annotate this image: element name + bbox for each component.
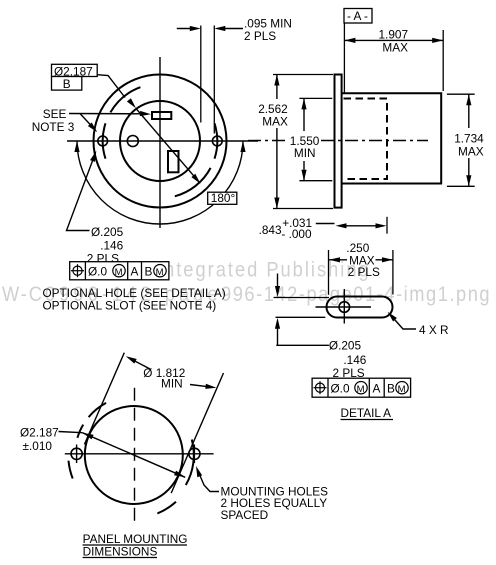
1.907 right extension line bbox=[442, 30, 444, 91]
.250 left extension line bbox=[328, 250, 330, 295]
svg-text:- .000: - .000 bbox=[281, 227, 312, 241]
watermark line 1 'Integrated Publishing' bbox=[157, 258, 369, 282]
detail A hole circle bbox=[339, 302, 350, 313]
watermark line 2 filename part 3 bbox=[221, 283, 490, 307]
see note 3 keyway arrowhead bbox=[140, 111, 151, 116]
svg-text:B: B bbox=[63, 77, 71, 91]
1.907 dimension line bbox=[344, 39, 443, 41]
left mounting hole bbox=[98, 136, 108, 146]
DIMENSIONS underline bbox=[83, 557, 157, 559]
svg-text:MAX: MAX bbox=[458, 145, 484, 159]
bolt circle diagonal dimension line bbox=[136, 109, 198, 181]
svg-text:4 X R: 4 X R bbox=[419, 323, 449, 337]
svg-text:2 PLS: 2 PLS bbox=[348, 265, 380, 279]
panel left hole crosshair bbox=[76, 445, 78, 464]
svg-text:SPACED: SPACED bbox=[221, 508, 269, 522]
dia 2.187 upper arrowhead panel bbox=[82, 433, 93, 440]
svg-text:B: B bbox=[387, 381, 395, 395]
panel bolt arc upper-left a bbox=[89, 403, 107, 417]
2.562 bottom arrowhead bbox=[274, 198, 279, 209]
polarizing slot lower right bbox=[168, 151, 179, 172]
bolt circle arc upper-left bbox=[110, 87, 140, 112]
datum box leader bbox=[97, 75, 125, 98]
.843 leader bbox=[316, 223, 335, 225]
.095 left arrow line bbox=[177, 28, 197, 30]
see note 3 leader to keyway bbox=[69, 113, 141, 115]
dia 2.187 lower arrowhead panel bbox=[174, 471, 185, 478]
detail A slot obround bbox=[327, 297, 393, 318]
svg-text:OPTIONAL SLOT (SEE NOTE 4): OPTIONAL SLOT (SEE NOTE 4) bbox=[43, 299, 217, 313]
1.734 top extension line bbox=[447, 93, 475, 95]
svg-text:A: A bbox=[131, 264, 139, 278]
datum A box bbox=[344, 9, 372, 24]
panel right mounting hole bbox=[189, 448, 200, 459]
slot width upper arrowhead bbox=[275, 286, 280, 297]
svg-text:180°: 180° bbox=[211, 191, 236, 205]
detail A dia .205 leader bbox=[276, 344, 329, 346]
180 arc right arrowhead bbox=[240, 141, 245, 152]
bolt circle arc through left hole bbox=[103, 123, 106, 158]
panel view vertical dashed centerline bbox=[134, 388, 136, 522]
panel bolt arc lower-left bbox=[69, 461, 73, 479]
dia 2.187 datum box bbox=[52, 64, 98, 76]
feature control frame front view bbox=[70, 262, 169, 280]
.095 left arrowhead bbox=[190, 26, 201, 31]
svg-text:MIN: MIN bbox=[294, 146, 316, 160]
.095 right extension line bbox=[213, 26, 215, 134]
svg-text:Ø2.187: Ø2.187 bbox=[20, 426, 59, 440]
.843 left arrowhead bbox=[336, 223, 347, 228]
front view inner body circle dia 1.550 bbox=[120, 101, 200, 181]
svg-text:M: M bbox=[357, 384, 365, 395]
.843 right arrowhead bbox=[376, 223, 387, 228]
svg-text:996-142-page01-4-img1.png: 996-142-page01-4-img1.png bbox=[221, 283, 490, 307]
4 X R leader bbox=[391, 316, 416, 330]
svg-text:.146: .146 bbox=[100, 239, 123, 253]
PANEL MOUNTING underline bbox=[83, 544, 187, 546]
1.907 left extension line bbox=[343, 23, 345, 93]
front view horizontal centerline bbox=[67, 140, 258, 142]
1.550 bottom extension line bbox=[299, 180, 332, 182]
slot width lower arrow line bbox=[277, 322, 279, 346]
1.907 right arrowhead bbox=[432, 38, 443, 43]
svg-text:B: B bbox=[145, 264, 153, 278]
1.812 left arrowhead bbox=[126, 356, 137, 363]
side view centerline right bbox=[321, 140, 428, 142]
feature control frame detail A bbox=[312, 378, 411, 397]
.250 right arrowhead bbox=[382, 257, 393, 262]
2.562 dimension line upper bbox=[276, 75, 278, 100]
4 X R arrowhead bbox=[388, 312, 397, 322]
diagonal dim lower arrowhead bbox=[191, 174, 200, 184]
svg-text:M: M bbox=[398, 384, 406, 395]
1.812 left tangent line bbox=[84, 353, 124, 445]
see note 3 hole arrowhead bbox=[88, 123, 97, 133]
svg-text:M: M bbox=[156, 267, 164, 278]
keyway slot top bbox=[152, 112, 171, 119]
svg-text:.146: .146 bbox=[343, 353, 366, 367]
panel view horizontal centerline bbox=[65, 453, 214, 455]
1.734 dimension line upper bbox=[468, 94, 470, 128]
1.734 top arrowhead bbox=[466, 94, 471, 105]
panel bolt arc lower-right bbox=[157, 502, 176, 514]
1.550 top arrowhead bbox=[301, 98, 306, 109]
panel bolt arc upper-left b bbox=[77, 425, 83, 438]
2.562 bottom extension line bbox=[273, 208, 333, 210]
2.562 dimension line lower bbox=[276, 128, 278, 209]
180 degree arc bbox=[77, 141, 243, 224]
dia .205 leader bbox=[67, 156, 95, 231]
detail A vertical crosshair bbox=[343, 289, 345, 324]
svg-text:MIN: MIN bbox=[161, 377, 183, 391]
180 arc left arrowhead bbox=[74, 141, 79, 152]
svg-text:1.734: 1.734 bbox=[454, 132, 484, 146]
svg-text:SEE: SEE bbox=[43, 107, 67, 121]
DETAIL A underline bbox=[341, 419, 394, 421]
watermark line 2 filename part 2 (hidden) bbox=[45, 283, 218, 307]
1.550 dimension line lower bbox=[303, 161, 305, 181]
1.550 dimension line upper bbox=[303, 98, 305, 131]
side view centerline left bbox=[248, 140, 286, 142]
svg-text:MAX: MAX bbox=[382, 41, 408, 55]
1.734 bottom extension line bbox=[447, 185, 475, 187]
.843 right extension line bbox=[386, 217, 388, 234]
dashed panel cutout rectangle bbox=[344, 99, 388, 180]
svg-text:DIMENSIONS: DIMENSIONS bbox=[83, 545, 158, 559]
slot top extension line bbox=[274, 297, 330, 299]
1.812 right tangent line bbox=[171, 373, 223, 493]
slot bottom extension line bbox=[276, 316, 326, 318]
svg-text:±.010: ±.010 bbox=[23, 439, 53, 453]
svg-text:- A -: - A - bbox=[347, 9, 368, 23]
1.550 bottom arrowhead bbox=[301, 170, 306, 181]
svg-text:Ø.205: Ø.205 bbox=[329, 339, 362, 353]
slot width upper arrow line bbox=[277, 274, 279, 294]
.095 left extension line bbox=[200, 26, 202, 123]
1.550 top extension line bbox=[299, 97, 332, 99]
.095 right arrowhead bbox=[214, 26, 225, 31]
svg-text:A: A bbox=[373, 381, 381, 395]
svg-text:DETAIL A: DETAIL A bbox=[341, 406, 392, 420]
.250 left arrowhead bbox=[329, 257, 340, 262]
body rectangle bbox=[342, 93, 442, 183]
datum leader arrowhead bbox=[127, 98, 136, 108]
slot width lower arrowhead bbox=[275, 318, 280, 329]
2.562 top arrowhead bbox=[274, 75, 279, 86]
right mounting hole bbox=[212, 136, 222, 146]
see note 3 branch to hole bbox=[80, 114, 92, 127]
flange rectangle bbox=[335, 75, 342, 208]
panel right hole crosshair bbox=[193, 445, 195, 464]
svg-text:MAX: MAX bbox=[262, 115, 288, 129]
180 degree box bbox=[208, 192, 237, 204]
mounting holes arrowhead bbox=[196, 466, 202, 477]
dia 2.187 leader panel bbox=[59, 432, 83, 433]
bolt circle arc through right hole bbox=[215, 123, 218, 158]
bolt circle arc lower-right bbox=[175, 168, 211, 196]
svg-text:2 PLS: 2 PLS bbox=[244, 29, 276, 43]
.843 dimension line bbox=[340, 225, 382, 227]
front view outer flange circle dia 2.562 bbox=[94, 75, 227, 208]
.250 right arrow line bbox=[376, 259, 394, 261]
svg-text:M: M bbox=[115, 267, 123, 278]
panel cutout circle dia 1.812 bbox=[85, 406, 183, 504]
svg-text:W-C: W-C bbox=[2, 283, 42, 307]
small contact hole bbox=[127, 136, 138, 147]
dia 2.187 dimension line panel bbox=[82, 433, 185, 478]
svg-text:Ø.0: Ø.0 bbox=[88, 264, 107, 278]
front view vertical centerline bbox=[159, 57, 161, 228]
1.734 dimension line lower bbox=[468, 158, 470, 186]
dia .205 leader arrowhead bbox=[90, 151, 96, 162]
2.562 top extension line bbox=[273, 74, 333, 76]
1.907 left arrowhead bbox=[344, 38, 355, 43]
svg-text:NOTE 3: NOTE 3 bbox=[32, 120, 75, 134]
1.734 bottom arrowhead bbox=[466, 175, 471, 186]
svg-text:Ø.0: Ø.0 bbox=[331, 381, 350, 395]
1.812 right arrow leader bbox=[190, 385, 212, 388]
panel bolt arc right bbox=[186, 440, 194, 486]
.250 left arrow line bbox=[329, 259, 347, 261]
watermark line 2 filename part 1 bbox=[2, 283, 42, 307]
panel left mounting hole bbox=[71, 448, 82, 459]
datum B box bbox=[52, 77, 82, 91]
svg-text:Integrated Publishing: Integrated Publishing bbox=[157, 258, 369, 282]
detail A horizontal crosshair bbox=[316, 306, 372, 308]
.095 right arrow line bbox=[218, 28, 244, 30]
1.812 right arrowhead bbox=[205, 384, 216, 389]
svg-text:Ø.205: Ø.205 bbox=[91, 225, 124, 239]
mounting holes leader bbox=[198, 471, 219, 492]
.250 right extension line bbox=[392, 250, 394, 295]
1.812 left arrow leader bbox=[131, 359, 152, 370]
svg-text:1.907: 1.907 bbox=[379, 28, 409, 42]
svg-text:.843: .843 bbox=[259, 223, 282, 237]
